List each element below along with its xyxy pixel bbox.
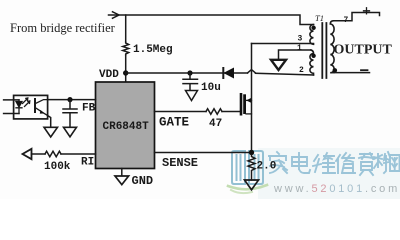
svg-text:2: 2 xyxy=(299,66,304,75)
ground (under 10u) xyxy=(186,91,198,101)
svg-text:GND: GND xyxy=(132,174,154,188)
wire: R1 to VDD node and chip xyxy=(125,55,127,82)
ground GND xyxy=(115,176,129,185)
wire: top rail from arrow to transformer pin4 xyxy=(109,15,314,25)
wire: vertical into R1 xyxy=(125,15,127,42)
svg-text:100k: 100k xyxy=(44,161,71,173)
svg-text:FB: FB xyxy=(82,103,96,115)
node FB xyxy=(67,97,72,102)
emission arrows xyxy=(23,98,30,107)
svg-text:1: 1 xyxy=(297,44,302,53)
wire: secondary + output xyxy=(334,13,380,21)
node VDD xyxy=(123,70,128,75)
wire: R3 to gate xyxy=(222,111,240,113)
wire: SENSE xyxy=(155,152,252,154)
minus terminal xyxy=(361,69,368,71)
node RI / external arrow xyxy=(23,149,32,159)
svg-text:T1: T1 xyxy=(315,13,324,23)
ground (opto emitter) xyxy=(44,127,58,137)
LED inside opto xyxy=(16,100,22,114)
wire: opto cathode stub xyxy=(4,113,19,115)
node: 10u cap junction xyxy=(187,70,192,75)
phototransistor xyxy=(34,99,36,112)
svg-text:2.0: 2.0 xyxy=(257,161,277,173)
svg-text:From bridge rectifier: From bridge rectifier xyxy=(10,21,116,35)
wire: opto emitter to ground xyxy=(48,116,51,128)
resistor R3 47 xyxy=(206,109,222,115)
svg-text:SENSE: SENSE xyxy=(162,156,198,170)
svg-text:GATE: GATE xyxy=(159,116,189,130)
svg-text:VDD: VDD xyxy=(99,69,119,81)
ground (under C1) xyxy=(64,127,77,137)
wire: GND pin xyxy=(121,169,123,176)
svg-text:www.520101.com: www.520101.com xyxy=(273,183,400,195)
wire hop at drain node xyxy=(248,70,256,73)
watermark chinese text 家电维修资料网 xyxy=(269,152,400,175)
resistor R2 100k xyxy=(45,151,61,157)
capacitor C1 (FB filter) xyxy=(63,100,77,127)
diode D1 xyxy=(222,68,224,78)
secondary winding xyxy=(330,21,334,73)
core xyxy=(322,23,326,78)
arrow (from bridge rectifier) xyxy=(113,12,120,18)
ground (pin1 return arrow) xyxy=(271,60,286,70)
IC U1 CR6848T xyxy=(96,82,155,169)
wire: pin1 to return triangle xyxy=(279,50,312,60)
wire: secondary - output xyxy=(334,72,370,74)
svg-text:47: 47 xyxy=(209,118,222,130)
wire: to transformer pin2 xyxy=(256,73,314,75)
primary upper winding xyxy=(310,25,314,45)
optocoupler U2 xyxy=(4,95,48,119)
resistor R1 1.5Meg xyxy=(123,42,129,55)
watermark background tint xyxy=(258,148,400,199)
wire: opto anode stub xyxy=(4,99,19,101)
plus terminal xyxy=(364,8,370,14)
wire: pin3 horizontal xyxy=(252,43,314,45)
svg-text:10u: 10u xyxy=(201,82,221,94)
capacitor C2 10u xyxy=(183,73,198,90)
resistor R4 2.0 xyxy=(248,155,255,180)
wire: GATE pin to R3 xyxy=(155,111,207,113)
svg-text:3: 3 xyxy=(298,35,303,44)
transformer T1 xyxy=(297,13,349,78)
svg-text:RI: RI xyxy=(81,157,94,169)
wire: VDD rail to diode xyxy=(126,72,248,74)
primary lower winding xyxy=(310,50,314,75)
svg-text:OUTPUT: OUTPUT xyxy=(334,43,393,58)
watermark logo xyxy=(228,151,267,193)
svg-text:CR6848T: CR6848T xyxy=(103,121,150,133)
transistor Q1 (MOSFET) xyxy=(240,93,252,116)
wire: 100k to RI pin xyxy=(61,153,96,155)
ground (under R4) xyxy=(245,180,259,190)
wire: pin3 down to MOSFET drain / sense node xyxy=(251,44,253,153)
wire: FB net xyxy=(48,99,96,101)
node: sense/source xyxy=(249,150,254,155)
svg-text:1.5Meg: 1.5Meg xyxy=(133,44,173,56)
wire: RI xyxy=(32,153,46,155)
